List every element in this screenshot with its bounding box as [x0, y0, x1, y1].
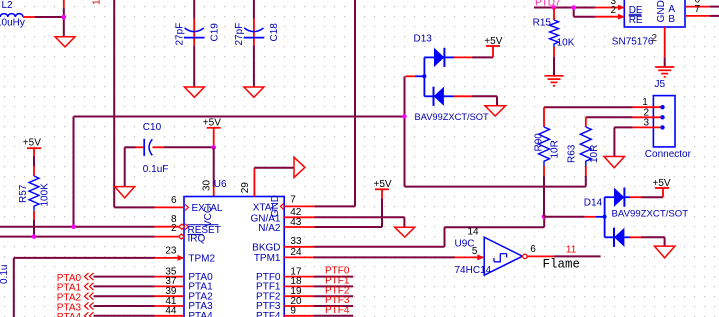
wire pin43 to +5V [315, 226, 383, 228]
wire junction to ground [63, 8, 65, 37]
svg-text:GND: GND [656, 0, 667, 22]
node junction PTD7/R15 [552, 5, 557, 10]
wire BKGD jog [313, 246, 444, 248]
power ground (SN75176) [655, 67, 674, 77]
U6 pin IRQ (2) [155, 223, 206, 244]
svg-text:TPM2: TPM2 [188, 253, 215, 264]
wire VCC down to U6 pin 30 [213, 147, 215, 187]
svg-text:RE: RE [629, 15, 643, 26]
svg-text:10uHy: 10uHy [0, 18, 25, 29]
wire RESET net vertical x=73.5 [73, 117, 75, 227]
ground (pin 42 net) [395, 227, 415, 237]
svg-text:30: 30 [201, 179, 212, 191]
net label PTA1 + wire [57, 283, 155, 294]
node junction C10/+5V/VCC [211, 145, 216, 150]
wire C10 to +5V junction [164, 146, 214, 148]
U6 pin N/A2 (43) [258, 217, 314, 234]
U6 pin GN/A1 (42) [250, 207, 314, 224]
svg-text:1uF: 1uF [91, 0, 102, 5]
wire D13 net vertical x=404.5 [404, 76, 406, 186]
resistor R57 [18, 166, 51, 220]
wire R15 to ground [553, 57, 555, 75]
svg-text:TPM1: TPM1 [254, 253, 281, 264]
power +5V (R57) [23, 138, 41, 156]
ground (C18) [244, 87, 264, 97]
svg-text:SN75176: SN75176 [612, 36, 654, 47]
U6 right pins PTF0-PTF4 [256, 266, 313, 317]
SN75176 GND pin wire [664, 27, 666, 58]
svg-text:IRQ: IRQ [188, 234, 206, 245]
wire EXTAL horizontal [114, 206, 154, 208]
wire vertical crystal net right [354, 0, 356, 206]
svg-text:14: 14 [468, 227, 480, 238]
svg-text:24: 24 [290, 247, 302, 258]
svg-text:10R: 10R [589, 145, 600, 163]
wire R90 to junction [543, 176, 545, 217]
diode D13 (dual BAV99) [405, 33, 489, 122]
svg-text:BAV99ZXCT/SOT: BAV99ZXCT/SOT [415, 112, 490, 122]
wire +5V to R57 [33, 156, 35, 166]
ground (D14) [654, 246, 675, 258]
svg-text:100K: 100K [40, 183, 51, 207]
wire connector pin2 to R63 [586, 116, 633, 118]
svg-text:C18: C18 [269, 23, 280, 42]
svg-text:R90: R90 [534, 133, 545, 152]
node junction RESET vertical [71, 224, 76, 229]
svg-text:7: 7 [290, 195, 296, 206]
svg-text:0.1uF: 0.1uF [143, 164, 169, 175]
svg-text:U6: U6 [214, 179, 227, 190]
node junction L2 [62, 15, 67, 20]
wire D13 top to +5V [472, 56, 493, 58]
svg-text:N/A2: N/A2 [258, 223, 281, 234]
wire R63 bottom stub [585, 176, 587, 187]
svg-text:C19: C19 [210, 23, 221, 42]
svg-text:R15: R15 [533, 17, 552, 28]
svg-text:44: 44 [165, 306, 177, 317]
wire XTAL horizontal [315, 205, 356, 207]
svg-text:C10: C10 [143, 122, 162, 133]
wire RESET net horizontal y=116.5 [74, 116, 405, 118]
svg-text:L2: L2 [2, 0, 14, 11]
svg-text:27pF: 27pF [234, 23, 245, 46]
svg-text:PTF4: PTF4 [325, 305, 350, 316]
svg-text:29: 29 [240, 182, 251, 194]
U6 pin BKGD (33) [252, 236, 313, 254]
ground (C19) [184, 87, 204, 97]
ground (C10) [115, 187, 135, 198]
SN75176 pin B (7) [668, 4, 719, 25]
connector pin 3 [633, 117, 665, 129]
svg-text:2: 2 [652, 33, 658, 44]
IC SN75176 box [624, 0, 685, 27]
wire D14 bottom to ground [641, 236, 665, 238]
svg-text:BKGD: BKGD [252, 243, 280, 254]
node junction BKGD/R90/D14 [542, 215, 547, 220]
svg-text:PTF4: PTF4 [256, 311, 281, 317]
wire TPM2 left and down [14, 257, 155, 259]
net label PTF3 + wire [313, 295, 353, 306]
svg-text:J5: J5 [655, 79, 666, 90]
svg-text:D14: D14 [584, 198, 603, 209]
wire to R63 horizontal y=186.6 [405, 186, 586, 188]
node junction RESET/D13 [402, 114, 407, 119]
net label PTF0 + wire [313, 266, 353, 277]
svg-text:PTA4: PTA4 [57, 312, 82, 317]
U6 pin RESET (8) [155, 214, 221, 236]
wire D13 bottom to ground [472, 95, 497, 97]
svg-text:2: 2 [171, 223, 177, 234]
SN75176 pin A (6) [668, 0, 719, 15]
net label PTD7 + wire [534, 0, 595, 8]
capacitor C18 [234, 0, 280, 46]
svg-text:10K: 10K [557, 37, 575, 48]
wire R57 to IRQ wire [33, 220, 35, 237]
wire C10 left leg down [124, 147, 126, 186]
svg-text:10R: 10R [550, 140, 561, 158]
svg-text:B: B [668, 14, 675, 25]
wire D14 common [544, 216, 585, 218]
svg-text:43: 43 [290, 217, 302, 228]
svg-text:Connector: Connector [645, 149, 692, 160]
net label PTA4 + wire [57, 312, 155, 317]
connector pin 2 [633, 107, 665, 119]
wire C19 to ground [193, 45, 195, 87]
svg-text:D13: D13 [414, 33, 433, 44]
connector pin 1 [633, 97, 665, 109]
SN75176 pin 3 (DE) [595, 0, 643, 16]
net label PTA3 + wire [57, 302, 155, 313]
SN75176 pin 2 (RE) [595, 5, 643, 26]
node junction PTD7 branch [571, 5, 576, 10]
U6 pin TPM2 (23) [155, 246, 216, 265]
wire pin42 to ground [315, 216, 405, 218]
svg-text:Flame: Flame [543, 258, 581, 272]
net label PTA2 + wire [57, 293, 155, 304]
inductor L2 [0, 0, 35, 29]
resistor R90 [534, 107, 561, 176]
connector J5 box [653, 96, 675, 147]
svg-text:R63: R63 [567, 144, 578, 163]
port arrow (net of pin 29) [294, 157, 305, 177]
power ground (R15) [545, 76, 564, 86]
U9C input pin 5 wire [455, 256, 485, 258]
svg-text:5: 5 [472, 246, 478, 257]
ground (connector pin3) [604, 157, 625, 168]
net label PTF4 + wire [313, 305, 353, 316]
svg-text:PTA4: PTA4 [188, 311, 213, 317]
svg-text:23: 23 [165, 246, 177, 257]
capacitor C19 [175, 0, 221, 46]
svg-text:VCC: VCC [203, 206, 214, 227]
wire C18 to ground [253, 45, 255, 87]
power +5V (C10/VCC) [203, 118, 221, 148]
svg-text:6: 6 [171, 195, 177, 206]
wire connector pin3 to ground [614, 126, 632, 128]
wire branch to pin 2 [573, 8, 575, 17]
op-amp U9C (74HC14 schmitt inverter) [455, 227, 537, 276]
resistor R63 [567, 117, 600, 176]
pin stub from component above (off-screen) [63, 0, 65, 8]
U6 left pins PTA0-PTA4 [155, 266, 214, 317]
svg-text:11: 11 [566, 245, 577, 256]
svg-text:+5V: +5V [374, 179, 392, 190]
svg-text:27pF: 27pF [175, 23, 186, 46]
wire TPM1 to U9C input [313, 256, 454, 258]
IC U6 box [184, 197, 284, 317]
node junction IRQ/R57 [32, 234, 37, 239]
net label PTF1 + wire [313, 276, 353, 287]
resistor R15 [533, 8, 575, 57]
U6 pin XTAL (7) [253, 195, 315, 214]
net label PTA0 + wire [57, 273, 155, 284]
wire RESET to U6 [0, 226, 155, 228]
power +5V (D14) [653, 178, 671, 197]
capacitor C10 [125, 122, 169, 175]
wire IRQ to U6 [0, 236, 155, 238]
U6 pin TPM1 (24) [254, 247, 314, 264]
power +5V (D13) [484, 36, 502, 47]
svg-text:7: 7 [695, 4, 701, 15]
svg-text:BAV99ZXCT/SOT: BAV99ZXCT/SOT [612, 209, 689, 220]
diode D14 (dual BAV99) [584, 188, 688, 247]
ground (L2) [55, 37, 75, 47]
U6 pin EXTAL (6) [155, 195, 223, 214]
pin 29 wire up and right [253, 168, 255, 197]
svg-text:6: 6 [530, 244, 536, 255]
svg-text:2: 2 [610, 5, 616, 16]
U9C output wire [527, 255, 553, 257]
wire vertical crystal net left [113, 0, 115, 207]
pin 30 stub [213, 187, 215, 197]
net label PTF2 + wire [313, 285, 353, 296]
wire D14 top to +5V [641, 196, 663, 198]
svg-text:33: 33 [290, 236, 302, 247]
wire connector pin1 to R90 [544, 106, 633, 108]
svg-text:R57: R57 [18, 184, 29, 203]
svg-text:9: 9 [290, 306, 296, 317]
wire L2 to junction [35, 16, 64, 18]
power +5V (pin 43 net) [374, 179, 392, 199]
svg-text:+5V: +5V [23, 138, 41, 149]
ground (D13) [485, 106, 506, 116]
svg-text:0.1u: 0.1u [0, 265, 10, 284]
